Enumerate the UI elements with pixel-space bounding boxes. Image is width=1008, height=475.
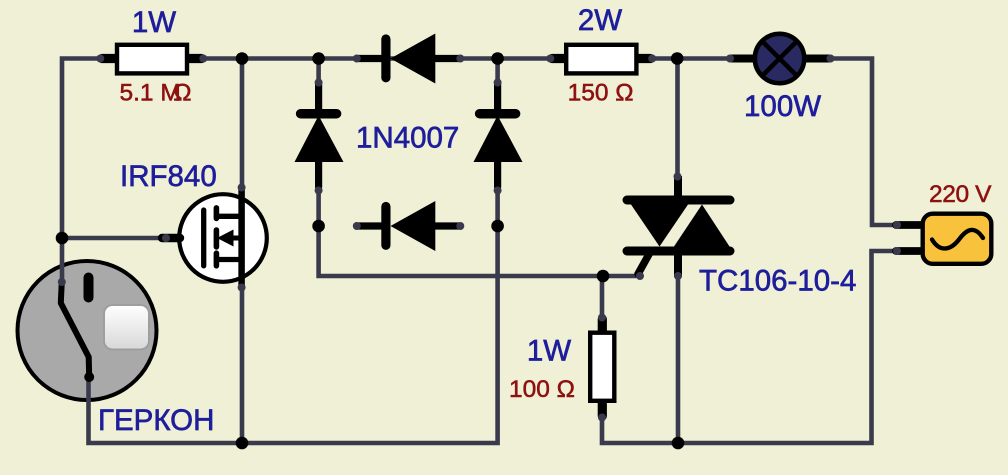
svg-text:5.1 MΩ: 5.1 MΩ [120,80,192,107]
svg-text:100 Ω: 100 Ω [509,376,575,403]
svg-text:1W: 1W [132,6,176,39]
svg-text:ГЕРКОН: ГЕРКОН [98,404,214,437]
svg-text:150 Ω: 150 Ω [568,80,634,107]
svg-text:220 V: 220 V [929,181,992,208]
svg-text:1N4007: 1N4007 [356,122,459,155]
svg-text:2W: 2W [578,4,622,37]
svg-text:100W: 100W [744,90,821,123]
svg-text:TC106-10-4: TC106-10-4 [699,265,856,298]
svg-text:IRF840: IRF840 [120,160,217,193]
svg-text:1W: 1W [527,335,571,368]
